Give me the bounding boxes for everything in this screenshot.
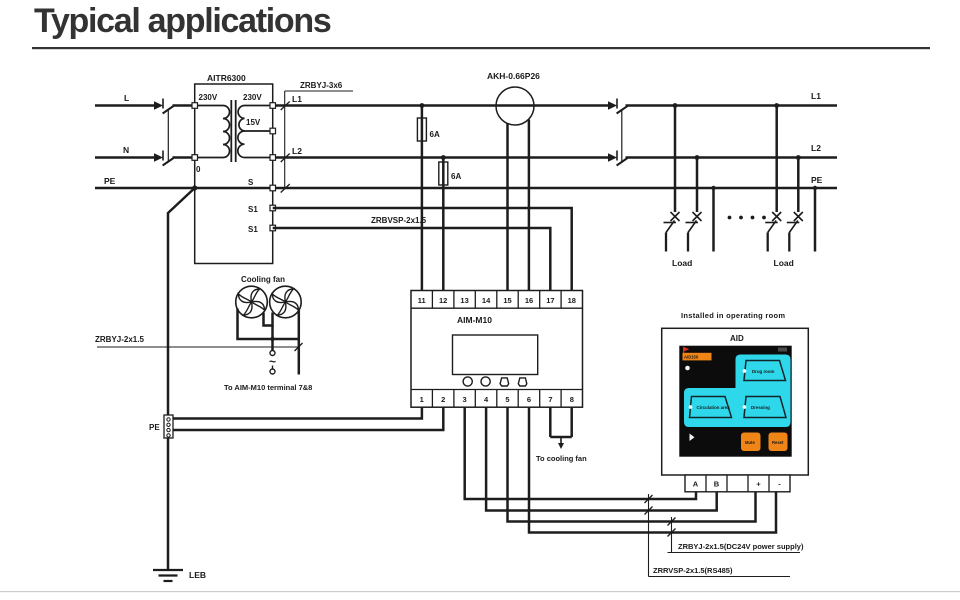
CT AKH-0.66P26 circle <box>496 87 534 125</box>
fuse F2 body <box>439 162 448 185</box>
svg-text:To AIM-M10 terminal 7&8: To AIM-M10 terminal 7&8 <box>224 383 312 392</box>
AIM terminal separators bottom <box>432 390 561 408</box>
svg-text:Typical applications: Typical applications <box>34 2 331 40</box>
svg-text:AIM-M10: AIM-M10 <box>457 315 492 325</box>
wire PE diagonal to earth column <box>168 188 195 570</box>
svg-text:AITR6300: AITR6300 <box>207 73 246 83</box>
screen orange button Reset <box>769 433 788 452</box>
load branch group 2: PE drop <box>814 188 817 252</box>
svg-text:12: 12 <box>439 296 447 305</box>
breaker group1 L1 <box>664 212 680 252</box>
svg-text:16: 16 <box>525 296 533 305</box>
svg-text:AID: AID <box>730 334 744 343</box>
node fan bus <box>270 337 274 341</box>
svg-text:ZRBYJ-3x6: ZRBYJ-3x6 <box>300 81 343 90</box>
svg-text:S: S <box>248 178 254 187</box>
wire fan middle drop <box>271 326 274 351</box>
svg-text:B: B <box>714 480 720 489</box>
fuse F1 wire <box>421 106 424 291</box>
screen red flag icon <box>683 347 689 352</box>
transformer terminal squares left <box>192 103 198 161</box>
PE terminal block <box>164 415 173 438</box>
svg-text:13: 13 <box>460 296 468 305</box>
transformer T1 box <box>195 84 273 264</box>
svg-text:1: 1 <box>420 395 424 404</box>
svg-text:2: 2 <box>441 395 445 404</box>
svg-text:6A: 6A <box>451 172 461 181</box>
svg-text:Load: Load <box>672 258 692 268</box>
svg-text:S1: S1 <box>248 225 258 234</box>
switch QS2 mechanical link <box>621 111 623 163</box>
svg-text:230V: 230V <box>243 93 262 102</box>
svg-text:Installed in operating room: Installed in operating room <box>681 311 785 320</box>
load branch group 2: L2 drop <box>797 158 800 213</box>
wire AIM terminal 8 to fan <box>570 407 573 437</box>
screen orange title bar <box>683 353 712 361</box>
screen cursor <box>690 434 695 442</box>
svg-text:+: + <box>756 480 761 489</box>
svg-text:L2: L2 <box>292 146 302 156</box>
CT secondary wires to terminals 15,16 <box>506 124 509 291</box>
node PE at transformer <box>192 185 197 190</box>
RS485 cable leader <box>648 494 650 577</box>
transformer terminal squares right <box>270 103 276 231</box>
svg-text:N: N <box>123 145 129 155</box>
svg-text:Dressing: Dressing <box>751 405 770 410</box>
fan M2 <box>270 286 302 318</box>
svg-text:3: 3 <box>463 395 467 404</box>
plug connector upper <box>270 351 275 356</box>
svg-text:To cooling fan: To cooling fan <box>536 454 587 463</box>
screen status mark <box>778 348 787 352</box>
title rule <box>32 47 930 49</box>
wire fan left drop <box>238 309 299 340</box>
svg-text:L: L <box>124 93 129 103</box>
breaker group2 L2 <box>787 212 803 252</box>
wire AIM terminal 1 to PE block <box>173 407 422 418</box>
cable leader line <box>284 91 286 188</box>
wire AIM terminal 2 to PE block <box>173 407 443 430</box>
switch QS1 pole N <box>154 151 174 166</box>
svg-text:11: 11 <box>418 296 426 305</box>
svg-text:ZRBYJ-2x1.5(DC24V power supply: ZRBYJ-2x1.5(DC24V power supply) <box>678 542 804 551</box>
transformer T1 secondary winding <box>238 106 273 158</box>
svg-text:230V: 230V <box>199 93 218 102</box>
screen button Dressing room (trapezoid) <box>743 397 786 418</box>
svg-text:L2: L2 <box>811 143 821 153</box>
screen button Circulation area (trapezoid) <box>689 397 732 418</box>
AID terminal strip <box>685 475 790 492</box>
wire L input <box>95 104 155 107</box>
AID screen <box>679 346 791 457</box>
monitor AIM-M10 box <box>411 291 583 408</box>
wire S1b to terminal 17 <box>273 228 551 291</box>
24V cable leader <box>671 517 673 553</box>
slash marks on leader <box>281 102 290 193</box>
svg-text:S1: S1 <box>248 205 258 214</box>
breaker group1 L2 <box>686 212 702 252</box>
display AID box <box>662 328 809 475</box>
screen white dot icon <box>685 366 690 371</box>
screen cyan panel (inverted L) <box>684 355 791 428</box>
screen button Drug room (trapezoid) <box>743 361 786 381</box>
arrow to cooling fan <box>560 437 562 444</box>
switch QS2 pole L2 <box>608 151 628 166</box>
AIM display <box>453 335 538 375</box>
page edge line <box>0 591 960 592</box>
fan M1 <box>236 286 268 318</box>
AIM terminal numbers bottom 1-8 <box>420 395 574 404</box>
svg-text:18: 18 <box>568 296 576 305</box>
screen orange button Mute <box>741 433 761 452</box>
svg-text:Cooling fan: Cooling fan <box>241 275 285 284</box>
wire fan U link <box>264 313 273 326</box>
AID terminal labels <box>693 480 781 489</box>
svg-text:15: 15 <box>503 296 511 305</box>
load branch group 2: L1 drop <box>775 106 778 213</box>
svg-text:Circulation area: Circulation area <box>697 405 731 410</box>
wire N input <box>95 156 155 159</box>
svg-text:ZRBVSP-2x1.5: ZRBVSP-2x1.5 <box>371 216 427 225</box>
transformer T1 primary winding <box>195 106 230 158</box>
ellipsis dots between load groups <box>728 216 766 220</box>
node fuse F1 tap <box>420 103 425 108</box>
node fuse F2 tap <box>441 155 446 160</box>
AIM terminal numbers top 11-18 <box>418 296 576 305</box>
AIM buttons <box>463 377 527 386</box>
wire fan right drop <box>298 310 301 375</box>
wire AIM terminal 3 to AID A <box>465 407 696 499</box>
wire L1 bus <box>273 104 608 107</box>
transformer T1 core <box>230 100 232 162</box>
wire N switch to transformer <box>173 156 195 159</box>
wire L2 bus <box>273 156 608 159</box>
svg-text:L1: L1 <box>811 91 821 101</box>
svg-text:PE: PE <box>104 176 116 186</box>
leader line to fan cable <box>97 346 299 348</box>
svg-text:AID150: AID150 <box>684 355 699 360</box>
svg-text:15V: 15V <box>246 118 261 127</box>
svg-text:L1: L1 <box>292 94 302 104</box>
svg-text:Mute: Mute <box>745 440 755 445</box>
wire AIM terminal 6 to AID - <box>529 407 776 532</box>
svg-text:7: 7 <box>548 395 552 404</box>
AIM terminal separators top <box>432 291 561 309</box>
svg-text:Load: Load <box>774 258 794 268</box>
earth LEB symbol <box>153 570 183 581</box>
load branch group 1: PE drop <box>712 188 715 252</box>
svg-text:LEB: LEB <box>189 570 206 580</box>
switch QS1 pole L <box>154 99 174 114</box>
fuse F1 body <box>417 118 426 141</box>
svg-text:Drug room: Drug room <box>752 369 775 374</box>
svg-text:5: 5 <box>505 395 509 404</box>
wire AIM terminal 7 to fan <box>549 407 552 437</box>
wire PE bus <box>95 187 837 190</box>
wire AIM terminal 4 to AID B <box>486 407 717 510</box>
svg-text:PE: PE <box>149 423 160 432</box>
svg-text:6A: 6A <box>430 130 440 139</box>
switch QS2 pole L1 (right side) <box>608 99 628 114</box>
svg-text:AKH-0.66P26: AKH-0.66P26 <box>487 71 540 81</box>
svg-text:17: 17 <box>546 296 554 305</box>
wire S1a to terminal 18 <box>273 208 572 291</box>
load branch group 1: L2 drop <box>696 158 699 213</box>
svg-text:PE: PE <box>811 175 823 185</box>
svg-text:ZRBYJ-2x1.5: ZRBYJ-2x1.5 <box>95 335 144 344</box>
wire AIM terminal 5 to AID + <box>508 407 756 521</box>
wire L switch to transformer <box>173 104 195 107</box>
wire bracket 7-8 <box>550 436 571 439</box>
svg-text:8: 8 <box>570 395 574 404</box>
svg-text:ZRRVSP-2x1.5(RS485): ZRRVSP-2x1.5(RS485) <box>653 566 733 575</box>
load branch group 1: L1 drop <box>674 106 677 213</box>
plug connector lower <box>272 366 274 370</box>
svg-text:0: 0 <box>196 165 201 174</box>
slash on fan cable leader <box>295 343 303 351</box>
switch QS1 mechanical link <box>167 111 169 163</box>
breaker group2 L1 <box>765 212 781 252</box>
svg-text:14: 14 <box>482 296 491 305</box>
svg-text:6: 6 <box>527 395 531 404</box>
svg-text:Reset: Reset <box>772 440 784 445</box>
svg-text:A: A <box>693 480 699 489</box>
fuse F2 wire <box>442 158 445 291</box>
